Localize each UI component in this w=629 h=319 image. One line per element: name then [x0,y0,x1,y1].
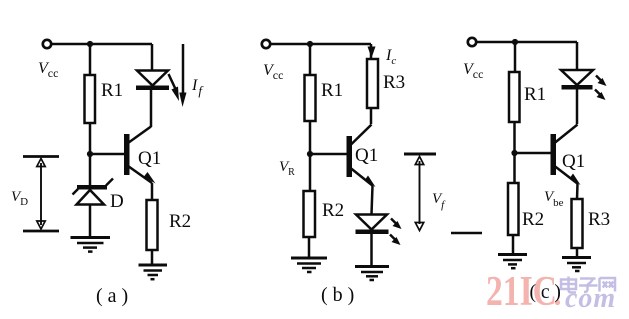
watermark .com [555,283,616,314]
svg-text:R3: R3 [383,72,405,93]
terminal Vcc (b) [262,40,270,48]
label Q1 (a) [138,148,161,169]
reference level dash (b) [451,232,482,235]
junction dot top rail (b) [307,41,313,47]
label R1 (a) [101,80,123,101]
svg-text:( c ): ( c ) [530,282,561,303]
current arrow Ic (b) [368,47,376,59]
wire rail to LED (c) [576,42,579,70]
svg-text:R1: R1 [101,80,123,101]
resistor R2 (a) [147,200,158,250]
ground under D (a) [71,238,111,252]
label R1 (c) [524,84,546,105]
label Vbe (c) [544,189,564,209]
wire emitter to LED (b) [372,186,373,214]
wire R3 to ground (c) [576,248,579,257]
svg-text:R2: R2 [522,209,544,230]
label R3 (b) [383,72,405,93]
resistor R2 (b) [304,191,316,237]
voltage indicator Vf arrow (b) [415,157,423,231]
LED D1 (a) [136,44,169,90]
label R2 (b) [322,200,344,221]
ground under R2 (a) [139,265,168,279]
resistor R1 (b) [305,75,316,121]
ground under R3 (c) [562,258,591,272]
wire rail to R3 (b) [370,44,373,59]
watermark 21IC [486,269,557,315]
svg-text:Q1: Q1 [138,148,161,169]
svg-text:R3: R3 [588,209,610,230]
svg-text:Q1: Q1 [562,151,585,172]
LED D1 (c) [561,70,593,90]
电 [561,277,576,293]
wire R2 to ground (c) [512,235,515,254]
wire LED to collector (c) [576,89,579,124]
terminal Vcc (a) [43,40,51,48]
terminal Vcc (c) [468,38,476,46]
junction dot base (a) [87,151,93,157]
caption (a) [96,285,128,307]
resistor R1 (a) [85,75,96,123]
svg-text:( a ): ( a ) [96,285,128,307]
label Vcc (a) [38,60,58,80]
wire R3 to collector (b) [370,108,373,124]
svg-text:R2: R2 [322,200,344,221]
wire top rail (a) [52,43,153,46]
ground under R2 (b) [291,258,327,272]
svg-text:R1: R1 [321,80,343,101]
wire R1 to R2 (c) [513,122,516,183]
resistor R2 (c) [508,183,519,235]
LED emission arrows (c) [595,76,607,101]
wire rail to R1 (c) [514,42,517,72]
svg-text:R2: R2 [169,211,191,232]
wire emitter to R2 (a) [151,183,154,200]
wire base (b) [310,153,347,156]
resistor R1 (c) [509,72,520,122]
caption (b) [321,284,354,306]
label VD (a) [11,189,28,208]
junction dot base (b) [307,151,313,157]
caption (c) [530,282,561,303]
wire base (a) [90,153,124,156]
transistor Q1 (b) [347,125,376,188]
label R1 (b) [321,80,343,101]
wire base (c) [515,152,551,155]
transistor Q1 (c) [551,125,581,186]
wire top rail (b) [271,43,372,46]
zener diode D (a) [73,179,114,205]
current arrow If long (a) [179,44,186,107]
label Vf (b) [432,191,446,211]
junction dot top rail (c) [512,39,518,45]
wire emitter to R3 (c) [576,184,579,199]
label Q1 (b) [355,145,378,166]
wire rail to R1 (b) [309,44,312,75]
junction dot top rail (a) [87,41,93,47]
wire rail to R1 (a) [89,44,92,75]
label R3 (c) [588,209,610,230]
watermark dianziwang glyphs [561,277,615,293]
label Q1 (c) [562,151,585,172]
wire top rail (c) [477,41,578,44]
label Vcc (b) [263,62,283,82]
label If (a) [191,77,204,98]
resistor R3 (c) [572,199,583,248]
voltage indicator VD bars (a) [23,157,59,232]
wire zener to ground (a) [89,205,92,237]
svg-text:R1: R1 [524,84,546,105]
LED emission arrows (b) [390,219,402,246]
wire collector to LED (a) [150,89,153,127]
label VR (b) [279,159,295,178]
voltage indicator Vf bar (b) [404,153,436,156]
子 [579,279,598,293]
svg-text:D: D [110,191,124,212]
wire R1 to zener (a) [89,123,92,185]
网 [600,278,616,292]
LED D1 (b) [356,215,389,235]
voltage indicator VD arrow (a) [37,159,45,230]
svg-text:( b ): ( b ) [321,284,354,306]
label Vcc (c) [463,61,483,81]
label R2 (a) [169,211,191,232]
wire R2 to ground (b) [308,237,311,257]
resistor R3 (b) [367,59,378,108]
wire LED to ground (b) [370,234,373,266]
label Ic (b) [385,47,396,67]
ground under LED (b) [355,267,389,281]
svg-text:Q1: Q1 [355,145,378,166]
label R2 (c) [522,209,544,230]
svg-text:com: com [565,283,616,314]
ground under R2 (c) [498,255,527,269]
junction dot base (c) [511,150,517,156]
wire R2 to ground (a) [151,250,154,264]
transistor Q1 (a) [124,127,156,184]
current arrow If short (a) [169,74,180,101]
label D (a) [110,191,124,212]
wire R1 to R2 (b) [309,121,312,191]
